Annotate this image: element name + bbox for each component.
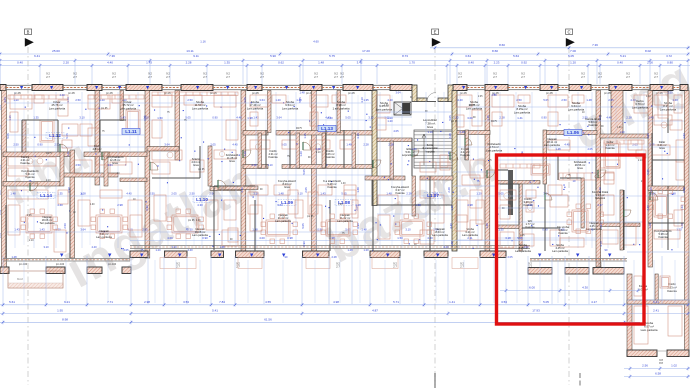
svg-text:0.40: 0.40 (617, 61, 623, 65)
room Cellár (605, 140, 615, 150)
apartment label L1.10 (193, 196, 211, 202)
svg-text:1.98: 1.98 (247, 116, 253, 120)
svg-text:Lam.parketta: Lam.parketta (466, 106, 483, 110)
blue sill triangles (20, 86, 663, 257)
stairwell west wall (372, 91, 377, 206)
svg-text:1.20: 1.20 (363, 248, 369, 252)
wall divider x241 (241, 91, 246, 252)
svg-text:1.35: 1.35 (450, 205, 454, 211)
wall y186 right section (648, 186, 684, 191)
svg-text:3.64: 3.64 (646, 133, 650, 139)
wall divider x596 (596, 91, 601, 268)
svg-text:4.40: 4.40 (564, 143, 570, 147)
svg-text:2.50: 2.50 (63, 223, 67, 229)
svg-text:fsapjátja: fsapjátja (425, 150, 435, 153)
svg-text:1.43: 1.43 (39, 228, 45, 232)
interior numbers row y240 (57, 116, 603, 240)
svg-text:0.90: 0.90 (145, 205, 149, 211)
bath partition x519 (519, 184, 522, 251)
svg-text:1.20: 1.20 (155, 248, 161, 252)
svg-text:4.40: 4.40 (232, 143, 238, 147)
svg-text:6.00: 6.00 (529, 286, 535, 290)
svg-text:3.10: 3.10 (360, 97, 364, 103)
svg-text:1.48: 1.48 (555, 147, 561, 151)
room Kertre (632, 99, 649, 109)
svg-text:17.20: 17.20 (362, 49, 370, 53)
room Nappali (432, 227, 448, 237)
room Konyha blokk (592, 190, 609, 200)
svg-text:2.28: 2.28 (363, 143, 369, 147)
svg-text:4.60: 4.60 (313, 40, 319, 44)
dimension row top 1 (0, 49, 690, 56)
wall stack chimney x611 (611, 91, 623, 135)
svg-text:2 7: 2 7 (148, 75, 152, 79)
svg-text:2.28: 2.28 (251, 163, 257, 167)
svg-text:2.20: 2.20 (63, 61, 69, 65)
wing room labels (638, 282, 677, 332)
svg-text:1.43: 1.43 (146, 61, 152, 65)
wall divider x485 (485, 91, 490, 252)
svg-text:4.40: 4.40 (240, 187, 244, 193)
svg-text:Lam.parketta: Lam.parketta (337, 219, 353, 223)
svg-text:pm 95: pm 95 (451, 121, 458, 123)
svg-text:6.41: 6.41 (653, 300, 659, 304)
svg-text:2 7: 2 7 (336, 265, 340, 269)
room Konyhaétkező (106, 155, 124, 165)
svg-text:2.28: 2.28 (80, 192, 86, 196)
svg-text:Lam.parketta: Lam.parketta (568, 107, 585, 111)
svg-text:2.11: 2.11 (467, 236, 473, 240)
wall y178 x120-147 (120, 178, 147, 182)
svg-text:2.28: 2.28 (491, 93, 497, 97)
room Nappali (586, 221, 602, 231)
svg-text:5.05: 5.05 (345, 116, 351, 120)
wall horizontal left y152 a (3, 152, 70, 157)
svg-text:Terr.parketta: Terr.parketta (40, 221, 55, 225)
wall y223 right section (600, 223, 640, 227)
svg-text:Lam.parketta: Lam.parketta (275, 219, 291, 223)
svg-text:2.50: 2.50 (189, 192, 195, 196)
room Szoba (462, 227, 478, 237)
pm level texts below top wall (14, 92, 663, 95)
svg-text:1.20: 1.20 (649, 187, 653, 193)
room Délér (657, 140, 666, 150)
room Nappali (337, 213, 353, 223)
section marker E (432, 29, 441, 388)
svg-text:4.17: 4.17 (591, 300, 597, 304)
interior dimension numbers (3, 97, 686, 247)
room Előtér (402, 147, 419, 157)
svg-text:3.64: 3.64 (276, 116, 282, 120)
svg-text:1.00: 1.00 (384, 105, 389, 107)
svg-text:Lam.parketta: Lam.parketta (486, 148, 503, 152)
svg-text:1.00: 1.00 (90, 204, 95, 206)
svg-text:Katonia: Katonia (395, 191, 405, 195)
svg-text:pm 100: pm 100 (56, 263, 65, 266)
svg-text:1.98: 1.98 (415, 203, 421, 207)
svg-text:Gres: Gres (577, 166, 583, 170)
blue tick markers (21, 94, 673, 252)
svg-text:1.48: 1.48 (219, 245, 225, 249)
svg-text:61.56: 61.56 (264, 317, 272, 321)
svg-text:0.90: 0.90 (0, 144, 2, 150)
svg-text:5.05: 5.05 (6, 133, 10, 139)
svg-text:1.41: 1.41 (517, 116, 523, 120)
svg-text:5.41: 5.41 (212, 309, 218, 313)
svg-text:2.28: 2.28 (315, 147, 321, 151)
svg-text:1.43: 1.43 (14, 228, 20, 232)
wall divider L1.12/L1.11 (95, 91, 100, 186)
room Nappali (40, 215, 55, 225)
exterior wall top band (0, 85, 688, 91)
svg-text:4.40: 4.40 (443, 245, 449, 249)
room Közlekedő (486, 142, 503, 152)
svg-text:2 7: 2 7 (521, 75, 525, 79)
svg-text:9.11: 9.11 (193, 54, 199, 58)
svg-text:2.28: 2.28 (388, 143, 394, 147)
svg-text:0.92: 0.92 (521, 61, 527, 65)
red highlight rectangle (497, 155, 645, 324)
svg-text:4.40: 4.40 (91, 245, 97, 249)
svg-text:2.98: 2.98 (144, 300, 150, 304)
svg-text:2.50: 2.50 (54, 143, 60, 147)
svg-text:L1.12: L1.12 (49, 133, 61, 138)
svg-text:2 7: 2 7 (226, 75, 230, 79)
watermark diagonal text (0, 50, 690, 299)
svg-text:Vesemol: Vesemol (595, 196, 606, 200)
corridor wall y186 (210, 187, 241, 191)
dimension witness lines top (0, 61, 688, 84)
svg-text:1.35: 1.35 (363, 98, 369, 102)
svg-text:pm 95: pm 95 (348, 92, 355, 95)
room Fővár (120, 100, 137, 110)
svg-text:Lam.parketta: Lam.parketta (432, 233, 448, 237)
svg-text:4.98: 4.98 (333, 300, 339, 304)
room Szoba (568, 101, 585, 111)
svg-text:5.05: 5.05 (448, 115, 452, 121)
svg-text:3.10: 3.10 (405, 228, 411, 232)
partition x620 (620, 190, 623, 250)
svg-text:2.28: 2.28 (186, 61, 192, 65)
svg-text:0.98: 0.98 (287, 236, 293, 240)
svg-text:1.48: 1.48 (10, 192, 16, 196)
room Szoba (660, 101, 677, 111)
svg-text:5.71: 5.71 (393, 300, 399, 304)
svg-text:5.64: 5.64 (513, 54, 519, 58)
svg-text:4.40: 4.40 (57, 203, 63, 207)
svg-text:3.10: 3.10 (79, 116, 85, 120)
svg-text:Gres: Gres (427, 125, 434, 129)
svg-text:5.05: 5.05 (298, 97, 302, 103)
svg-text:5.05: 5.05 (185, 116, 191, 120)
svg-text:2 7: 2 7 (598, 75, 602, 79)
svg-text:4.30: 4.30 (197, 203, 203, 207)
svg-text:6.21: 6.21 (64, 300, 70, 304)
room Fővár (49, 100, 66, 110)
svg-text:1.48: 1.48 (356, 187, 360, 193)
svg-text:L1.14: L1.14 (40, 193, 52, 198)
svg-text:3.00: 3.00 (467, 116, 473, 120)
svg-text:2.50: 2.50 (523, 245, 529, 249)
svg-text:L1.13: L1.13 (321, 126, 333, 131)
svg-text:5.05: 5.05 (646, 169, 650, 175)
svg-text:pm 95: pm 95 (101, 108, 108, 110)
svg-text:Katonia: Katonia (588, 123, 598, 127)
svg-text:1.43: 1.43 (648, 116, 654, 120)
room Nappali (96, 229, 112, 239)
svg-text:B: B (27, 29, 30, 34)
wall y130 b (276, 131, 372, 136)
room Nappali (544, 137, 560, 147)
svg-text:7.00: 7.00 (570, 49, 576, 53)
svg-text:4.40: 4.40 (187, 248, 193, 252)
svg-text:2 7: 2 7 (626, 75, 630, 79)
svg-text:3.72: 3.72 (666, 54, 672, 58)
stair entrance recess walls (412, 85, 453, 102)
density boost patches (62, 92, 682, 237)
terrace outlines below bottom wall (160, 258, 478, 269)
svg-text:3.53: 3.53 (183, 300, 189, 304)
svg-text:Lam.parketta: Lam.parketta (49, 106, 66, 110)
wall y176 b (420, 176, 453, 180)
svg-text:4.05: 4.05 (393, 129, 399, 133)
svg-text:2.10: 2.10 (29, 240, 34, 242)
room Szoba (514, 104, 531, 114)
section marker C (566, 29, 575, 385)
svg-text:2.50: 2.50 (187, 228, 193, 232)
svg-text:4.30: 4.30 (582, 286, 588, 290)
svg-text:5.05: 5.05 (517, 236, 523, 240)
svg-text:5.75: 5.75 (329, 54, 335, 58)
svg-text:2.05: 2.05 (142, 228, 148, 232)
bath wall y180 (497, 181, 540, 185)
wall y176 L1.07 upper (365, 176, 405, 180)
svg-text:4.40: 4.40 (59, 93, 65, 97)
wall divider L1.12/L1.11 (145, 91, 150, 259)
svg-text:3.10: 3.10 (427, 130, 433, 134)
room Szoba (515, 243, 531, 253)
apartment label L1.11 (122, 128, 140, 134)
svg-text:90/75: 90/75 (46, 153, 52, 155)
svg-text:90/75: 90/75 (469, 105, 475, 107)
svg-text:2.05: 2.05 (171, 192, 177, 196)
svg-text:C: C (567, 29, 570, 34)
svg-text:Gres: Gres (659, 146, 665, 150)
svg-text:2 7: 2 7 (528, 265, 532, 269)
svg-text:2.41: 2.41 (653, 309, 659, 313)
svg-text:2.50: 2.50 (516, 98, 522, 102)
svg-text:17.93: 17.93 (532, 309, 540, 313)
svg-text:4.40: 4.40 (449, 223, 453, 229)
wall y138 stair side (377, 138, 412, 142)
svg-text:2.28: 2.28 (447, 187, 451, 193)
right top room partitions (243, 90, 684, 228)
svg-text:90/75: 90/75 (491, 121, 497, 123)
svg-text:1.20: 1.20 (619, 130, 625, 134)
svg-text:4.40: 4.40 (606, 116, 612, 120)
svg-text:0.90: 0.90 (212, 116, 218, 120)
svg-text:3.64: 3.64 (465, 54, 471, 58)
svg-text:0.90: 0.90 (541, 116, 547, 120)
corridor wall y173 (60, 173, 118, 177)
room Konyhaétkező (21, 169, 39, 179)
svg-text:3.64: 3.64 (259, 98, 265, 102)
svg-text:2.05: 2.05 (304, 187, 308, 193)
svg-text:3.10: 3.10 (267, 163, 273, 167)
svg-text:2.05: 2.05 (123, 248, 129, 252)
svg-text:13.11: 13.11 (186, 49, 194, 53)
svg-text:2 7: 2 7 (112, 75, 116, 79)
svg-text:3.42: 3.42 (357, 61, 363, 65)
svg-text:2 7: 2 7 (654, 75, 658, 79)
svg-text:1.48: 1.48 (11, 255, 17, 259)
svg-text:5.05: 5.05 (143, 115, 147, 121)
wall divider L1.09/L1.08 (312, 91, 317, 252)
svg-text:0.90: 0.90 (202, 236, 208, 240)
svg-text:Gres: Gres (229, 159, 235, 163)
exterior wall right edge (685, 91, 690, 357)
apartment label L1.06 (564, 129, 582, 135)
svg-text:1.95: 1.95 (57, 309, 63, 313)
svg-text:pm 95: pm 95 (198, 169, 205, 171)
svg-text:3.64: 3.64 (80, 228, 86, 232)
bottom dim small texts above lines (19, 262, 603, 269)
room Szárító (191, 157, 200, 167)
room Szóba (466, 100, 483, 110)
room Nappali (275, 213, 291, 223)
svg-text:Lam.parketta: Lam.parketta (514, 110, 531, 114)
wall thickness dim texts (46, 72, 658, 79)
svg-text:Katonia: Katonia (658, 235, 668, 239)
svg-text:2.10: 2.10 (316, 152, 321, 154)
svg-text:4.00: 4.00 (259, 236, 265, 240)
partition x543 (543, 130, 547, 184)
svg-text:1.48: 1.48 (318, 61, 324, 65)
svg-text:0.62: 0.62 (278, 61, 284, 65)
svg-text:2.50: 2.50 (75, 163, 81, 167)
room Kamra (20, 155, 30, 165)
svg-text:4.40: 4.40 (236, 116, 242, 120)
svg-text:1.50: 1.50 (157, 116, 163, 120)
room Kis szoba (557, 225, 569, 235)
svg-text:4.98: 4.98 (467, 203, 473, 207)
red rect interior dims (500, 286, 640, 293)
svg-text:Lam.parketta: Lam.parketta (515, 249, 531, 253)
bottom witness lines (3, 256, 688, 304)
svg-text:1.48: 1.48 (347, 248, 353, 252)
svg-text:2.05: 2.05 (243, 97, 247, 103)
svg-text:4.40: 4.40 (107, 61, 113, 65)
svg-text:pm 95: pm 95 (68, 92, 75, 95)
svg-text:3.64: 3.64 (0, 189, 2, 195)
svg-text:pm 100: pm 100 (19, 263, 28, 266)
svg-text:1.35: 1.35 (0, 209, 2, 215)
dimension row top 3 (0, 61, 690, 68)
bottom wall right part (x530-630) (528, 259, 627, 275)
svg-text:1.00: 1.00 (338, 204, 343, 206)
svg-text:2.50: 2.50 (187, 98, 193, 102)
svg-text:8.60: 8.60 (492, 49, 498, 53)
svg-text:2.05: 2.05 (608, 98, 614, 102)
fixtures detail (27, 144, 533, 211)
room Szoba (247, 100, 264, 110)
svg-text:1.48: 1.48 (450, 241, 454, 247)
svg-text:0.40: 0.40 (468, 61, 474, 65)
svg-text:2.05: 2.05 (507, 255, 513, 259)
svg-text:1.48: 1.48 (485, 223, 489, 229)
svg-text:4.00: 4.00 (167, 236, 173, 240)
svg-text:0.80: 0.80 (667, 61, 673, 65)
svg-text:2 7: 2 7 (203, 75, 207, 79)
svg-text:2.10: 2.10 (46, 180, 51, 182)
svg-text:2 7: 2 7 (393, 265, 397, 269)
svg-text:25.60: 25.60 (52, 49, 60, 53)
svg-text:2.05: 2.05 (632, 143, 638, 147)
svg-text:L1.06: L1.06 (567, 130, 579, 135)
left edge dim column (0, 104, 2, 238)
svg-text:7.84: 7.84 (219, 300, 225, 304)
dark wall x508 red rect (508, 170, 513, 215)
svg-text:3.10: 3.10 (43, 245, 49, 249)
svg-text:4.40: 4.40 (126, 192, 132, 196)
svg-text:2 7: 2 7 (176, 265, 180, 269)
svg-text:1 am.parketta: 1 am.parketta (332, 106, 350, 110)
svg-text:1.20: 1.20 (275, 98, 281, 102)
apartment label L1.07 (424, 192, 442, 198)
room F ürdő (460, 147, 470, 157)
svg-text:Gres: Gres (193, 163, 199, 167)
svg-text:2 7: 2 7 (493, 75, 497, 79)
svg-text:2 7: 2 7 (314, 75, 318, 79)
svg-text:L1.07: L1.07 (427, 193, 439, 198)
room Szoba (552, 243, 568, 253)
room Konyha-étkező (278, 179, 296, 189)
svg-text:2.28: 2.28 (448, 133, 452, 139)
svg-text:Lépcsőkerme: Lépcsőkerme (402, 153, 419, 157)
svg-text:4.87: 4.87 (372, 309, 378, 313)
wing furniture (634, 276, 682, 344)
svg-text:Lam.parketta: Lam.parketta (247, 106, 264, 110)
bottom dim row 3 (0, 317, 640, 324)
wall y134 right section (600, 134, 648, 138)
svg-text:2.50: 2.50 (75, 98, 81, 102)
svg-text:2.50: 2.50 (667, 91, 673, 95)
room Közlekedő (574, 160, 587, 170)
svg-text:3.64: 3.64 (107, 163, 113, 167)
svg-text:Katonia: Katonia (558, 231, 568, 235)
svg-text:4.40: 4.40 (457, 98, 463, 102)
svg-text:2.50: 2.50 (561, 98, 567, 102)
svg-text:1.50: 1.50 (397, 236, 403, 240)
room Fürdő (523, 197, 533, 207)
wall y130 right of stairs (457, 131, 490, 135)
svg-text:pm 100: pm 100 (108, 263, 117, 266)
svg-text:2 7: 2 7 (581, 75, 585, 79)
section marker B (25, 29, 34, 385)
svg-text:Katonia: Katonia (667, 289, 677, 293)
terrace bottom-left (8, 271, 63, 288)
svg-text:Katonia: Katonia (25, 175, 35, 179)
svg-text:Lam.parketta: Lam.parketta (376, 107, 393, 111)
svg-text:5.21: 5.21 (620, 54, 626, 58)
room Fürdő (268, 149, 278, 159)
svg-text:8.02: 8.02 (645, 49, 651, 53)
wall y164 a (243, 165, 268, 169)
svg-text:Lam.parketta: Lam.parketta (552, 249, 568, 253)
svg-text:0.40: 0.40 (17, 61, 23, 65)
svg-text:L1.11: L1.11 (125, 129, 137, 134)
wall y146 x147-179 (147, 147, 179, 152)
